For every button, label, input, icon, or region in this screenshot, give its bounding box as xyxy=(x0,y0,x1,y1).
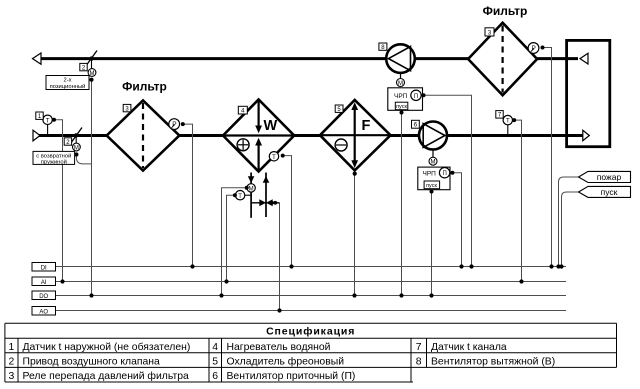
svg-text:1: 1 xyxy=(9,342,15,353)
svg-text:П: П xyxy=(442,171,446,177)
wire supply damper actuator join xyxy=(76,155,91,164)
supply duct inlet arrow xyxy=(33,130,40,141)
wire pusk tag to DI xyxy=(562,192,579,267)
node dot frostT-DI xyxy=(289,264,293,268)
svg-text:позиционный: позиционный xyxy=(50,83,86,90)
heater water piping xyxy=(248,173,280,218)
box 7 xyxy=(496,111,503,119)
wire supply filter dP sensor to DI xyxy=(183,124,193,266)
node dot pusk8-DO xyxy=(399,293,403,297)
DO bus line xyxy=(56,295,567,297)
sensor T7 channel xyxy=(503,115,516,134)
svg-text:ЧРП: ЧРП xyxy=(394,93,408,100)
wire exhaust damper actuator to DO xyxy=(91,80,93,296)
pusk tag xyxy=(579,186,631,197)
table row 1 xyxy=(9,341,507,353)
node dot cooler-DO xyxy=(352,293,356,297)
svg-text:Реле перепада давлений фильтра: Реле перепада давлений фильтра xyxy=(23,370,189,382)
svg-text:М: М xyxy=(398,81,403,87)
svg-text:пуск: пуск xyxy=(601,187,618,197)
box 6 supply fan xyxy=(412,120,420,128)
supply duct outlet arrow (room) xyxy=(583,130,590,140)
svg-text:ЧРП: ЧРП xyxy=(423,170,437,177)
filter F1 supply diamond xyxy=(107,100,180,170)
wire pusk-6 to DO xyxy=(431,189,433,296)
svg-text:W: W xyxy=(264,118,278,134)
wire ChRP-8 to DI xyxy=(424,95,472,266)
AO bus line xyxy=(56,310,567,312)
wire pozhar tag to DI xyxy=(559,177,579,267)
node dot valve-AO xyxy=(277,308,281,312)
svg-text:М: М xyxy=(431,160,436,166)
svg-text:с возвратной: с возвратной xyxy=(36,152,71,159)
exhaust duct outlet arrow xyxy=(33,53,42,64)
AI bus line xyxy=(56,281,567,283)
exhaust duct inlet arrow (room) xyxy=(580,53,588,64)
svg-text:Т: Т xyxy=(238,194,242,200)
node dot T1-AI xyxy=(60,279,64,283)
table row 3 xyxy=(9,370,356,382)
svg-text:3: 3 xyxy=(9,371,15,382)
node dot dampers-DO xyxy=(89,293,93,297)
valve (bowtie) on heater return xyxy=(259,199,277,206)
svg-text:DO: DO xyxy=(39,294,48,300)
table row 2 xyxy=(9,355,556,367)
svg-text:Охладитель фреоновый: Охладитель фреоновый xyxy=(227,355,345,367)
svg-text:Т: Т xyxy=(272,155,276,161)
node dot T7-AI xyxy=(519,279,523,283)
wire T7 sensor to AI xyxy=(514,120,521,281)
sensor T return water xyxy=(233,191,251,200)
svg-text:Вентилятор приточный (П): Вентилятор приточный (П) xyxy=(227,371,356,382)
svg-text:М: М xyxy=(90,71,95,77)
node dot pusk6-DO xyxy=(429,293,433,297)
svg-text:AO: AO xyxy=(39,309,48,315)
damper supply (slash + M actuator) xyxy=(71,128,83,157)
damper exhaust (slash + M actuator) xyxy=(86,51,98,82)
svg-text:F: F xyxy=(362,118,371,134)
svg-text:Т: Т xyxy=(506,119,510,125)
pozhar tag xyxy=(579,171,631,182)
svg-text:Вентилятор вытяжной (В): Вентилятор вытяжной (В) xyxy=(431,356,555,367)
box 5 cooler xyxy=(335,105,343,113)
label 2-h pozicionnyj xyxy=(46,76,89,91)
sensor T frost protection xyxy=(269,152,284,161)
heater U4 diamond xyxy=(223,100,294,172)
svg-text:8: 8 xyxy=(416,356,422,367)
node dot pusktag-DI xyxy=(559,264,563,268)
svg-text:пуск: пуск xyxy=(426,183,437,189)
svg-text:М: М xyxy=(74,146,79,152)
node dot pump-DO xyxy=(219,293,223,297)
wire return water T sensor to AI xyxy=(227,195,235,281)
wire exhaust filter dP sensor to DI xyxy=(543,48,552,267)
specification table xyxy=(5,323,617,382)
box 2 supply damper xyxy=(64,138,71,146)
ChRP box fan 8 xyxy=(388,88,426,115)
room rectangle xyxy=(567,40,610,146)
node dot filterP-DI xyxy=(190,264,194,268)
svg-text:Спецификация: Спецификация xyxy=(266,326,355,338)
wire pusk-8 to DO xyxy=(401,110,403,296)
box 3 exhaust filter xyxy=(485,28,494,37)
svg-text:DI: DI xyxy=(41,265,47,271)
svg-text:4: 4 xyxy=(212,342,218,353)
svg-text:Привод воздушного клапана: Привод воздушного клапана xyxy=(23,356,161,367)
sensor dP supply filter xyxy=(169,119,185,130)
wire supply duct line xyxy=(39,134,583,137)
AO box xyxy=(32,307,56,316)
box 2 exhaust damper xyxy=(80,63,87,71)
filter F3 exhaust diamond xyxy=(468,23,537,96)
node dot chrp8-DI xyxy=(469,264,473,268)
node dot returnT-AI xyxy=(224,279,228,283)
svg-text:Фильтр: Фильтр xyxy=(122,80,167,94)
svg-text:пожар: пожар xyxy=(597,172,622,182)
node dot pozhar-DI xyxy=(556,264,560,268)
fan 6 supply xyxy=(419,122,447,166)
wire frost T sensor to DI xyxy=(283,156,292,267)
DI box xyxy=(32,263,56,272)
box 8 exhaust fan xyxy=(379,43,387,51)
svg-text:AI: AI xyxy=(41,280,47,286)
svg-text:пружиной: пружиной xyxy=(41,158,67,165)
svg-text:Фильтр: Фильтр xyxy=(483,4,528,18)
svg-text:Датчик t наружной (не обязател: Датчик t наружной (не обязателен) xyxy=(23,341,191,353)
sensor T1 outdoor xyxy=(43,115,56,134)
svg-text:6: 6 xyxy=(212,371,218,382)
box 4 heater xyxy=(238,106,247,114)
svg-text:5: 5 xyxy=(212,356,218,367)
svg-text:Т: Т xyxy=(46,118,50,124)
wire cooler stage to DO xyxy=(354,172,356,296)
wire valve actuator to AO xyxy=(279,203,281,311)
svg-text:Датчик t канала: Датчик t канала xyxy=(431,342,507,353)
node dot exhfilterP-DI xyxy=(549,264,553,268)
label s vozvratnoj pruzhinoj xyxy=(33,151,75,165)
DI bus line xyxy=(56,266,567,268)
cooler U5 diamond xyxy=(320,100,391,170)
AI box xyxy=(32,277,56,286)
box 3 supply filter xyxy=(123,104,131,112)
ChRP box fan 6 xyxy=(418,167,455,193)
svg-text:7: 7 xyxy=(416,342,422,353)
pump M heater xyxy=(245,184,256,193)
svg-text:Нагреватель водяной: Нагреватель водяной xyxy=(227,342,331,353)
fan 8 exhaust xyxy=(386,44,415,87)
svg-text:П: П xyxy=(414,94,418,100)
wire pump M to DO xyxy=(222,188,247,296)
wire T1 sensor to AI xyxy=(54,120,63,282)
DO box xyxy=(32,291,56,300)
wire ChRP-6 to DI xyxy=(452,173,461,267)
svg-text:М: М xyxy=(249,186,254,192)
svg-text:пуск: пуск xyxy=(396,104,407,110)
svg-text:2: 2 xyxy=(9,356,15,367)
sensor dP exhaust filter xyxy=(528,43,544,54)
box 1 xyxy=(36,112,43,120)
node dot cooler bottom xyxy=(353,172,357,176)
node dot chrp6-DI xyxy=(459,264,463,268)
svg-text:2-х: 2-х xyxy=(63,78,71,84)
wire exhaust duct line xyxy=(40,57,578,60)
